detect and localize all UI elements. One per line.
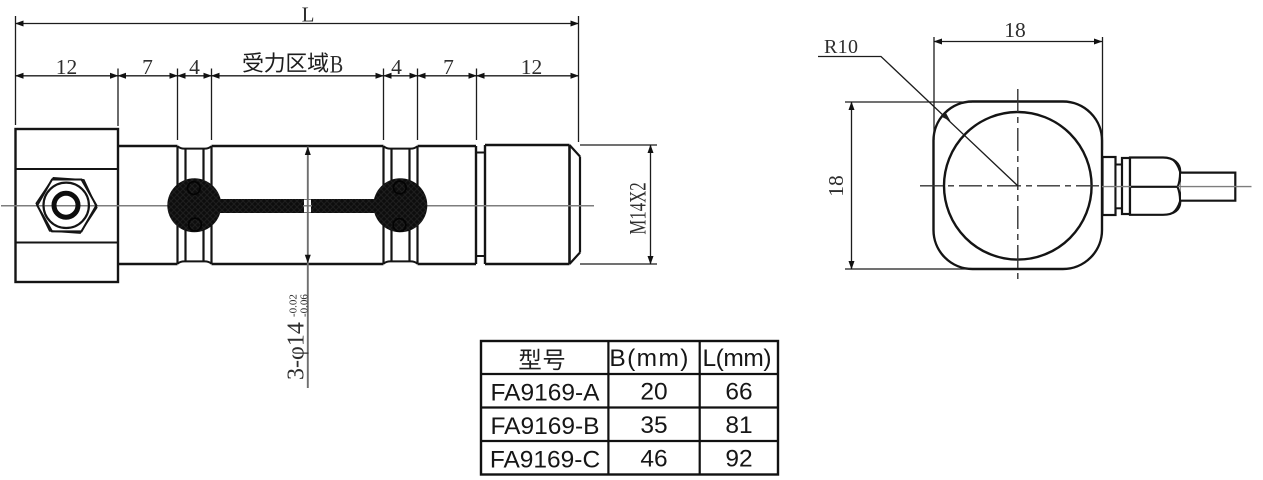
left groove bottom dip (178, 261, 212, 263)
svg-text:35: 35 (640, 412, 667, 439)
table row lines (481, 374, 778, 441)
gland washer (1122, 158, 1130, 214)
R10 leader (818, 57, 1018, 186)
centerline over bar (303, 205, 312, 207)
svg-text:M14X2: M14X2 (626, 182, 651, 234)
svg-text:92: 92 (725, 446, 752, 473)
svg-text:18: 18 (1004, 18, 1026, 42)
svg-text:4: 4 (189, 55, 200, 79)
svg-text:L(mm): L(mm) (703, 345, 772, 372)
right groove top dip (384, 146, 418, 148)
nut chamfer circle (43, 183, 88, 228)
dim M14X2 extension lines (580, 145, 657, 264)
gland body with lobes (1130, 158, 1180, 215)
neck groove (476, 153, 485, 257)
svg-text:R10: R10 (824, 36, 858, 58)
svg-text:3-φ14: 3-φ14 (284, 322, 310, 380)
svg-text:FA9169-C: FA9169-C (490, 447, 600, 474)
dim 3-phi14 rotated text (284, 294, 311, 380)
gland plate 1 (1103, 157, 1116, 215)
hex nut outer hexagon rotated (34, 177, 98, 234)
label 受力区域B glyphs (243, 52, 328, 72)
cylinder right end line (475, 146, 477, 264)
phi14 dim line vertical (307, 147, 309, 389)
table frame (481, 341, 778, 475)
svg-text:4: 4 (391, 55, 402, 79)
hex nut hexagon (37, 180, 96, 232)
dim M14X2 line (650, 145, 652, 264)
cylinder bottom contour (118, 263, 476, 265)
dim 18 top extensions (934, 37, 1103, 150)
thread chamfer line (568, 145, 571, 264)
gland body midline (1131, 186, 1178, 188)
gland centerline (1102, 186, 1252, 188)
svg-text:18: 18 (824, 175, 848, 197)
svg-text:20: 20 (640, 379, 667, 406)
gland chamfer arc (1173, 160, 1182, 214)
svg-text:46: 46 (640, 446, 667, 473)
octagon body (934, 102, 1103, 270)
left sensing blob (167, 178, 221, 232)
cylinder top contour (118, 145, 476, 147)
table column lines (608, 341, 699, 475)
svg-text:FA9169-A: FA9169-A (491, 380, 601, 407)
nut hole thick ring (54, 193, 78, 217)
svg-text:7: 7 (443, 55, 454, 79)
block chamfer line bottom (16, 242, 119, 244)
svg-text:B(mm): B(mm) (609, 345, 688, 372)
right groove verticals (384, 146, 418, 264)
right sensing blob (373, 178, 427, 232)
block chamfer line top (16, 168, 119, 170)
svg-text:66: 66 (725, 379, 752, 406)
R10 arrowhead (941, 112, 950, 121)
header 型号 glyphs (519, 349, 564, 370)
gland notch (1116, 165, 1123, 209)
main circle (944, 112, 1092, 260)
bar centre white marks (304, 200, 311, 213)
svg-text:FA9169-B: FA9169-B (491, 413, 600, 440)
right groove bottom dip (384, 261, 418, 263)
left groove top dip (178, 146, 212, 148)
left groove verticals (178, 146, 212, 264)
dim L line (16, 23, 579, 25)
strain beam bar (194, 199, 401, 213)
thread section (485, 145, 570, 264)
dim 18 left line (851, 102, 853, 269)
svg-text:81: 81 (725, 412, 752, 439)
svg-text:-0.06: -0.06 (299, 294, 311, 317)
dim 18 top line (934, 41, 1102, 43)
blob small holes (188, 181, 407, 231)
dim M14X2 text (626, 182, 651, 234)
svg-text:12: 12 (521, 55, 543, 79)
svg-text:7: 7 (142, 55, 153, 79)
dim 18 left text (824, 175, 848, 197)
chain dim extension ticks (118, 69, 477, 141)
vertical dashed centerline (1017, 89, 1019, 281)
dim L extension lines (16, 16, 579, 142)
horizontal dashed centerline (920, 185, 1102, 187)
side view centerline (1, 205, 594, 207)
left block (16, 129, 119, 282)
svg-text:B: B (330, 52, 344, 79)
thread chamfers (570, 145, 581, 264)
dim 18 left extensions (845, 102, 972, 269)
cable rod (1181, 173, 1235, 201)
chain dims (16, 75, 579, 77)
svg-text:L: L (302, 3, 315, 27)
svg-text:12: 12 (56, 55, 78, 79)
